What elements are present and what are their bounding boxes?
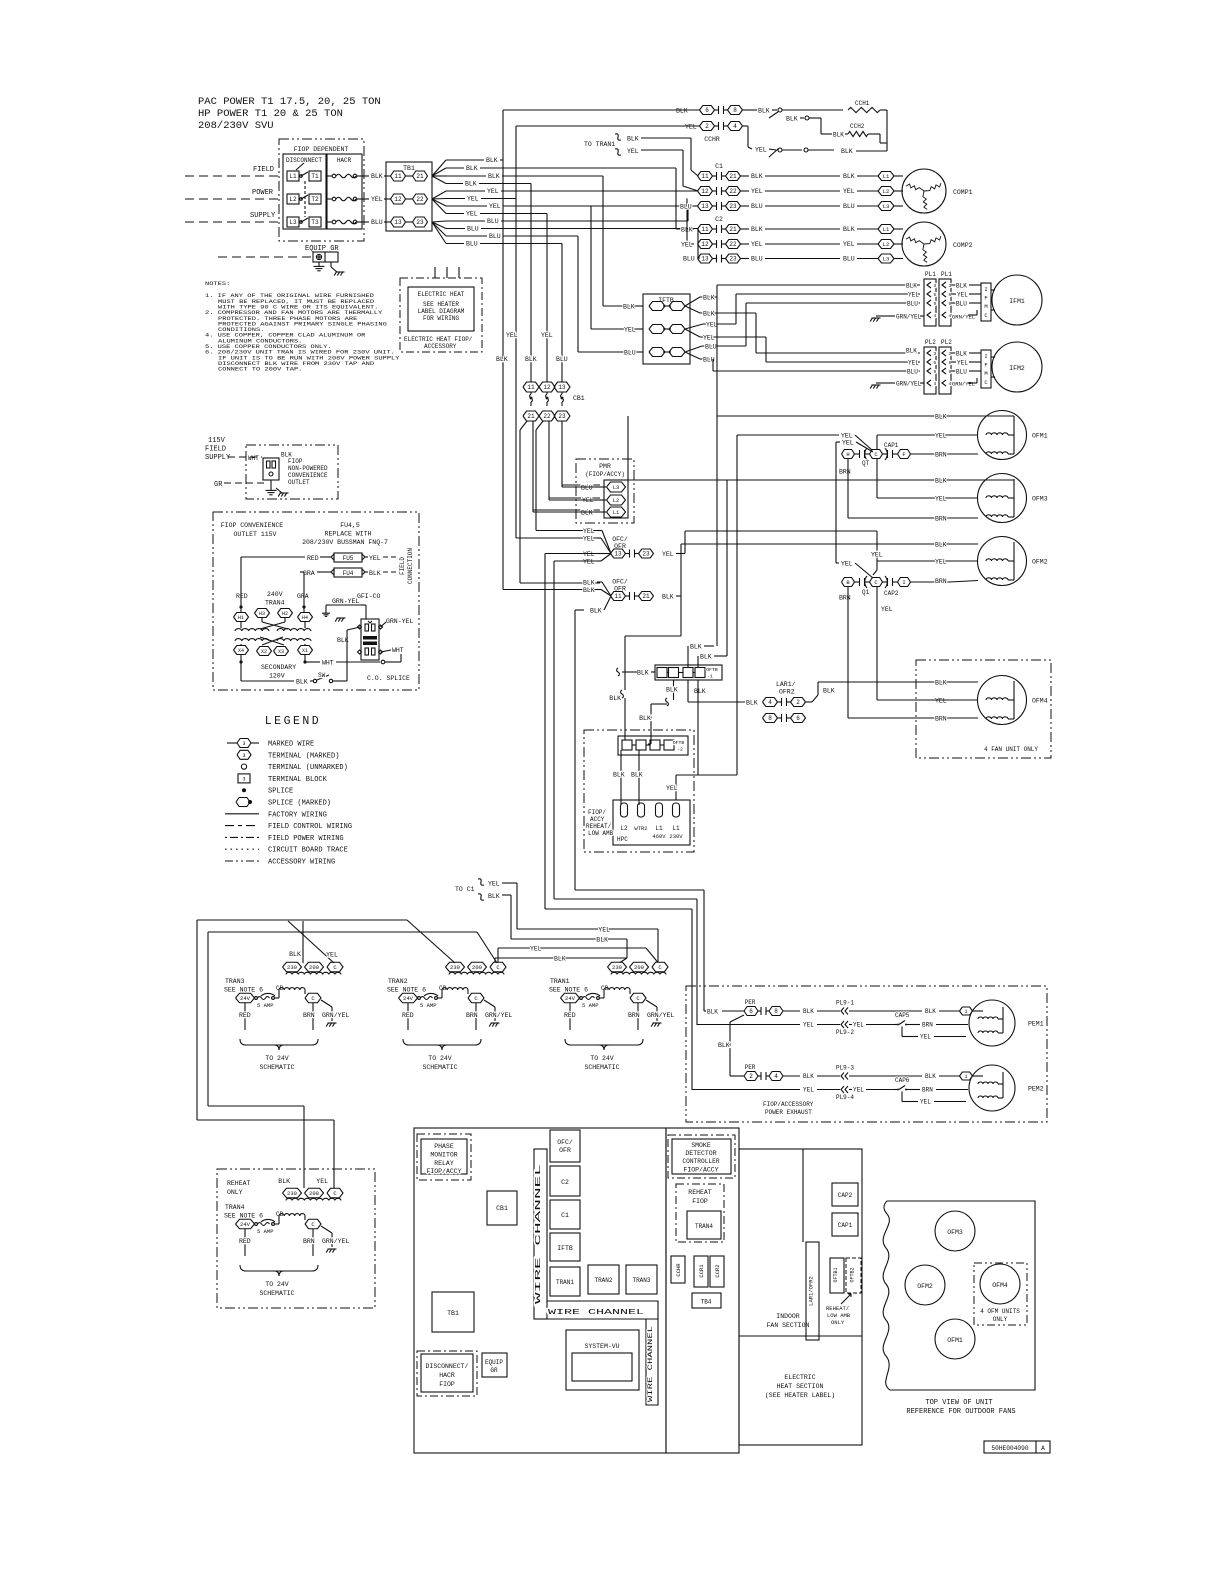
resistor CCH1: [848, 107, 880, 112]
svg-text:BLU: BLU: [467, 226, 479, 233]
power exhaust motor PEM1: [969, 1000, 1015, 1046]
svg-text:BLK: BLK: [676, 108, 688, 115]
outdoor fan motor OFM1: [978, 411, 1027, 460]
wire C down to OFM4 YEL: [876, 587, 878, 701]
svg-text:L2: L2: [883, 241, 890, 248]
svg-text:BLU: BLU: [705, 344, 717, 351]
wire feeds TRAN4: [208, 1105, 304, 1107]
svg-text:YEL: YEL: [935, 496, 947, 503]
svg-text:YEL: YEL: [841, 433, 853, 440]
svg-text:8: 8: [774, 1008, 778, 1015]
svg-text:FIOP DEPENDENT: FIOP DEPENDENT: [294, 146, 349, 153]
svg-text:LOW AMB: LOW AMB: [588, 830, 614, 837]
svg-text:L2: L2: [883, 188, 890, 195]
svg-text:ONLY: ONLY: [831, 1319, 845, 1326]
svg-text:REHEAT/: REHEAT/: [586, 823, 612, 830]
svg-text:GRN/YEL: GRN/YEL: [952, 381, 975, 388]
svg-text:PL1: PL1: [941, 271, 952, 278]
svg-text:INDOOR: INDOOR: [776, 1313, 800, 1320]
svg-text:L2: L2: [289, 196, 297, 203]
svg-text:CAP1: CAP1: [838, 1222, 853, 1229]
component TB4 box: [692, 1293, 721, 1308]
svg-text:BLU: BLU: [956, 301, 967, 308]
svg-text:3: 3: [934, 283, 937, 289]
field power supply lines: [185, 175, 283, 177]
wire PEM feed 2: [554, 898, 697, 900]
svg-text:L1: L1: [672, 825, 680, 832]
svg-text:HP POWER T1 20 & 25 TON: HP POWER T1 20 & 25 TON: [198, 108, 343, 120]
phase monitor relay box: [417, 1134, 471, 1180]
svg-text:WTR2: WTR2: [634, 825, 647, 832]
wire CCH1 branch: [743, 109, 758, 111]
transformer TRAN3: [283, 962, 302, 972]
svg-text:208/230V SVU: 208/230V SVU: [198, 120, 274, 132]
svg-text:SEE NOTE 6: SEE NOTE 6: [387, 987, 426, 994]
svg-text:H4: H4: [302, 615, 308, 621]
svg-text:FAN SECTION: FAN SECTION: [767, 1322, 810, 1329]
svg-text:CIRCUIT BOARD TRACE: CIRCUIT BOARD TRACE: [268, 847, 348, 855]
wire IFTB to PL1 PL2: [685, 297, 700, 306]
svg-text:3: 3: [949, 351, 952, 357]
svg-text:BLU: BLU: [751, 256, 763, 263]
svg-text:FACTORY WIRING: FACTORY WIRING: [268, 811, 327, 819]
wire channel right: [646, 1319, 658, 1405]
svg-text:YEL: YEL: [369, 555, 381, 562]
svg-text:115V: 115V: [208, 437, 226, 445]
svg-text:23: 23: [642, 551, 650, 558]
svg-text:22: 22: [416, 196, 424, 203]
svg-text:X3: X3: [278, 649, 284, 655]
svg-text:F: F: [984, 295, 987, 302]
svg-text:TOP VIEW OF UNIT: TOP VIEW OF UNIT: [925, 1399, 992, 1407]
svg-text:FU4,5: FU4,5: [340, 522, 360, 529]
svg-text:FIOP: FIOP: [692, 1198, 708, 1205]
svg-text:F: F: [984, 362, 987, 369]
svg-text:21: 21: [642, 593, 650, 600]
svg-text:YEL: YEL: [506, 332, 518, 339]
svg-text:BLK: BLK: [751, 226, 763, 233]
svg-text:BLK: BLK: [466, 165, 478, 172]
power exhaust accessory box: [686, 986, 1047, 1122]
svg-text:200: 200: [634, 964, 644, 971]
svg-text:OFTB1: OFTB1: [833, 1267, 839, 1282]
wire OFTB-1 sq2 down to OFTB-2: [673, 680, 675, 700]
svg-text:LEGEND: LEGEND: [265, 715, 321, 728]
wire YEL3 down to PEM: [544, 554, 546, 910]
svg-text:BLU: BLU: [843, 256, 855, 263]
svg-text:SYSTEM-VU: SYSTEM-VU: [584, 1343, 619, 1350]
compressor motor COMP1: [902, 169, 946, 213]
svg-text:12: 12: [394, 196, 402, 203]
svg-text:WHT: WHT: [248, 455, 259, 462]
wire vertical BLK x503: [502, 110, 504, 590]
svg-text:OFTB: OFTB: [706, 667, 718, 673]
component TRAN1 box: [550, 1267, 580, 1296]
svg-text:21: 21: [527, 413, 535, 420]
svg-text:CONTROLLER: CONTROLLER: [682, 1158, 719, 1165]
svg-text:PL9-2: PL9-2: [836, 1029, 854, 1036]
svg-text:I: I: [984, 286, 987, 293]
svg-text:BLK: BLK: [631, 772, 643, 779]
svg-text:PAC POWER T1 17.5, 20, 25 TON: PAC POWER T1 17.5, 20, 25 TON: [198, 96, 381, 108]
svg-text:POWER: POWER: [252, 189, 274, 197]
svg-text:X1: X1: [302, 648, 308, 654]
svg-text:COMP1: COMP1: [953, 189, 973, 196]
svg-text:BLU: BLU: [751, 203, 763, 210]
svg-text:YEL: YEL: [598, 927, 610, 934]
terminal IFMC block IFM1: [981, 283, 991, 321]
wire OFM1 BLK: [717, 415, 1014, 417]
wire B down to OFM4 BRN: [847, 587, 849, 719]
wire vertical BLK x531 to CB1: [530, 184, 532, 383]
svg-text:BLK: BLK: [554, 956, 566, 963]
svg-text:FIOP CONVENIENCE: FIOP CONVENIENCE: [221, 522, 284, 529]
svg-text:-1: -1: [707, 674, 713, 680]
wire fanout from TB1: [432, 160, 446, 176]
svg-text:BLK: BLK: [583, 580, 595, 587]
svg-text:9: 9: [934, 369, 937, 375]
svg-text:BRN: BRN: [303, 1238, 315, 1245]
svg-text:13: 13: [701, 256, 709, 263]
svg-text:YEL: YEL: [487, 188, 499, 195]
svg-text:SEE NOTE 6: SEE NOTE 6: [549, 987, 588, 994]
svg-text:WHT: WHT: [322, 660, 334, 667]
svg-text:1: 1: [964, 1074, 967, 1080]
svg-text:L2: L2: [613, 497, 620, 504]
control box outline: [414, 1128, 666, 1453]
svg-text:PL2: PL2: [941, 339, 952, 346]
resistor CCH2: [848, 131, 868, 136]
svg-text:YEL: YEL: [583, 528, 595, 535]
svg-text:REPLACE WITH: REPLACE WITH: [325, 531, 372, 538]
component LAR1/OFR2 box: [802, 1149, 804, 1242]
svg-text:L3: L3: [883, 203, 890, 210]
terminal block OFTB-1: [655, 665, 722, 680]
indoor fan motor IFM1: [992, 275, 1042, 325]
svg-text:BLU: BLU: [466, 241, 478, 248]
svg-text:BLK: BLK: [690, 644, 702, 651]
svg-text:CONNECTION: CONNECTION: [407, 548, 414, 584]
svg-text:BLK: BLK: [694, 688, 706, 695]
component OFTB2 box: [846, 1258, 861, 1293]
svg-text:BLK: BLK: [906, 348, 917, 355]
svg-text:ELECTRIC: ELECTRIC: [784, 1374, 815, 1381]
svg-text:YEL: YEL: [316, 1178, 328, 1185]
svg-text:TRAN4: TRAN4: [695, 1223, 713, 1230]
svg-text:21: 21: [729, 173, 737, 180]
wire bus BLK to transformers: [197, 919, 407, 921]
svg-text:YEL: YEL: [920, 1099, 931, 1106]
svg-text:TRAN4: TRAN4: [265, 600, 285, 607]
svg-text:CB1: CB1: [573, 395, 585, 402]
svg-text:PL1: PL1: [925, 271, 936, 278]
svg-text:GR: GR: [490, 1367, 498, 1374]
wire to C2 contactor: [675, 168, 677, 229]
wire TO C1 BLK to TRAN1 230: [511, 938, 627, 940]
svg-text:H2: H2: [282, 611, 288, 617]
svg-text:BLK: BLK: [703, 311, 715, 318]
svg-text:4: 4: [934, 313, 937, 319]
svg-text:TO 24V: TO 24V: [265, 1055, 289, 1062]
svg-text:BLU: BLU: [680, 204, 692, 211]
svg-text:BLK: BLK: [465, 181, 477, 188]
svg-text:GRN/YEL: GRN/YEL: [485, 1012, 512, 1019]
svg-text:LOW AMB: LOW AMB: [827, 1312, 851, 1319]
svg-text:BLU: BLU: [907, 369, 918, 376]
svg-text:BRN: BRN: [839, 595, 851, 602]
component OFC/OFR box: [550, 1130, 580, 1162]
svg-text:YEL: YEL: [489, 203, 501, 210]
svg-text:YEL: YEL: [666, 785, 678, 792]
svg-text:BLK: BLK: [296, 679, 308, 686]
relay CCHR contacts: [700, 106, 715, 115]
svg-text:230: 230: [287, 1190, 297, 1197]
wire OFC BLK chain down to OFTB-2: [624, 672, 626, 690]
svg-text:CAP5: CAP5: [895, 1012, 910, 1019]
svg-text:CONNECT TO 200V TAP.: CONNECT TO 200V TAP.: [218, 366, 302, 373]
svg-text:YEL: YEL: [530, 946, 542, 953]
svg-text:BLK: BLK: [803, 1008, 814, 1015]
wire OFR2 to OFM4 BLK: [806, 701, 813, 703]
svg-text:BLU: BLU: [843, 203, 855, 210]
svg-text:BLK: BLK: [935, 542, 947, 549]
svg-text:BLU: BLU: [371, 219, 383, 226]
indoor fan section outline: [739, 1149, 862, 1445]
svg-text:200: 200: [309, 964, 319, 971]
svg-text:240V: 240V: [267, 591, 283, 598]
svg-text:200: 200: [309, 1190, 319, 1197]
svg-text:BLK: BLK: [289, 951, 301, 958]
svg-text:BRN: BRN: [935, 578, 947, 585]
svg-text:BLK: BLK: [700, 654, 712, 661]
component TRAN2 box: [588, 1265, 619, 1294]
component CCHR box: [671, 1256, 685, 1283]
svg-text:RED: RED: [239, 1012, 251, 1019]
wire WHT to splice: [305, 661, 320, 663]
svg-text:OFM3: OFM3: [1032, 496, 1048, 503]
ground IFM1: [872, 317, 881, 319]
svg-text:YEL: YEL: [466, 211, 478, 218]
svg-text:TO 24V: TO 24V: [428, 1055, 452, 1062]
wire BLK3 down to PEM: [574, 610, 576, 890]
wire H to OFM3 BRN: [847, 459, 849, 519]
svg-text:SCHEMATIC: SCHEMATIC: [422, 1064, 457, 1071]
svg-text:BLK: BLK: [843, 173, 855, 180]
svg-text:SMOKE: SMOKE: [691, 1142, 711, 1149]
svg-text:OFC/: OFC/: [612, 536, 628, 543]
svg-text:BLK: BLK: [935, 478, 947, 485]
svg-text:YEL: YEL: [935, 559, 947, 566]
svg-text:BLK: BLK: [746, 700, 758, 707]
svg-text:FIELD: FIELD: [205, 446, 226, 454]
svg-text:BLK: BLK: [935, 414, 947, 421]
svg-text:BLK: BLK: [718, 1042, 730, 1049]
svg-text:TRAN2: TRAN2: [388, 978, 408, 985]
wire CAP1 to OFM1 BRN: [911, 453, 979, 455]
wire IFM1 BLK feed: [717, 284, 920, 286]
component C2 box: [550, 1166, 580, 1196]
svg-text:LAR1/: LAR1/: [776, 681, 796, 688]
svg-text:L1: L1: [883, 226, 890, 233]
svg-text:WIRE CHANNEL: WIRE CHANNEL: [548, 1309, 644, 1317]
wire TRAN3 YEL diagonal: [288, 921, 334, 963]
circuit breaker CB1: [523, 382, 539, 392]
svg-text:C.O. SPLICE: C.O. SPLICE: [367, 675, 410, 682]
svg-text:T1: T1: [311, 173, 319, 180]
svg-text:23: 23: [416, 219, 424, 226]
svg-text:SW: SW: [318, 672, 326, 679]
svg-text:WIRE CHANNEL: WIRE CHANNEL: [647, 1326, 654, 1402]
svg-text:6: 6: [705, 107, 709, 114]
power exhaust motor PEM2: [969, 1065, 1015, 1111]
svg-text:PL9-3: PL9-3: [836, 1065, 854, 1072]
svg-text:OFM3: OFM3: [947, 1229, 963, 1236]
wire CB1-21 outputs: [520, 421, 527, 430]
svg-text:CB1: CB1: [496, 1205, 508, 1212]
wire TO C1 YEL to TRAN1 C: [517, 928, 658, 930]
FIOP convenience outlet box: [213, 512, 419, 690]
svg-text:RED: RED: [236, 593, 248, 600]
svg-text:L1: L1: [655, 825, 663, 832]
svg-text:OFTB2: OFTB2: [850, 1267, 856, 1282]
wire CB1-22 outputs: [536, 421, 543, 430]
wire PEM feed 3: [545, 908, 692, 910]
svg-text:1: 1: [964, 1009, 967, 1015]
svg-text:BLK: BLK: [956, 351, 967, 358]
svg-text:BLU: BLU: [624, 350, 636, 357]
svg-text:BLK: BLK: [956, 283, 967, 290]
svg-text:TO 24V: TO 24V: [265, 1281, 289, 1288]
svg-text:PHASE: PHASE: [434, 1143, 454, 1150]
terminal block OFTB-2: [618, 736, 688, 755]
svg-text:SPLICE: SPLICE: [268, 788, 293, 796]
svg-text:YEL: YEL: [583, 559, 595, 566]
svg-text:11: 11: [527, 384, 535, 391]
component TRAN4 box: [687, 1211, 721, 1239]
svg-text:DISCONNECT/: DISCONNECT/: [426, 1363, 469, 1370]
svg-text:TO 24V: TO 24V: [590, 1055, 614, 1062]
svg-text:CAP1: CAP1: [884, 442, 899, 449]
svg-text:12: 12: [543, 384, 551, 391]
svg-text:GRN/YEL: GRN/YEL: [322, 1012, 349, 1019]
svg-text:HACR: HACR: [439, 1372, 455, 1379]
component CCR2 box: [710, 1256, 724, 1287]
svg-text:TRAN3: TRAN3: [632, 1277, 650, 1284]
svg-text:YEL: YEL: [957, 360, 968, 367]
svg-text:YEL: YEL: [703, 335, 715, 342]
svg-text:TERMINAL (MARKED): TERMINAL (MARKED): [268, 752, 339, 760]
transformer secondary 120V: [235, 639, 269, 641]
svg-text:CCR1: CCR1: [698, 1264, 705, 1278]
svg-text:6: 6: [934, 292, 937, 298]
svg-text:CCHR: CCHR: [704, 136, 720, 143]
non-powered convenience outlet box: [246, 445, 338, 499]
svg-text:FIELD: FIELD: [253, 166, 274, 174]
terminal IFMC block IFM2: [981, 350, 991, 388]
svg-text:13: 13: [614, 551, 622, 558]
svg-text:L1: L1: [883, 173, 890, 180]
svg-text:PL2: PL2: [925, 339, 936, 346]
wire C to OFM3 YEL: [876, 459, 878, 499]
svg-text:TO TRAN1: TO TRAN1: [584, 141, 615, 148]
svg-text:GRN-YEL: GRN-YEL: [386, 618, 413, 625]
svg-text:FU4: FU4: [343, 570, 354, 577]
svg-text:GRN-YEL: GRN-YEL: [332, 598, 359, 605]
reheat FIOP box: [676, 1184, 724, 1242]
svg-text:2: 2: [749, 1073, 753, 1080]
svg-text:BLK: BLK: [369, 570, 381, 577]
plug low ambient HPC: [613, 800, 690, 845]
svg-text:6: 6: [949, 292, 952, 298]
svg-text:COMP2: COMP2: [953, 242, 973, 249]
fan OFM1 top view: [935, 1319, 975, 1359]
svg-text:6: 6: [749, 1008, 753, 1015]
svg-text:BLU: BLU: [683, 256, 695, 263]
svg-text:TB1: TB1: [403, 165, 415, 172]
svg-text:PEM2: PEM2: [1028, 1086, 1044, 1093]
svg-text:BLK: BLK: [841, 148, 853, 155]
wire PL2 to IFM2: [951, 352, 956, 354]
component TB1 box: [432, 1292, 474, 1332]
electric heat FIOP/accessory box: [400, 278, 482, 352]
svg-text:BRN: BRN: [466, 1012, 478, 1019]
svg-text:BLK: BLK: [843, 226, 855, 233]
svg-text:Q1: Q1: [862, 589, 870, 596]
svg-text:GR: GR: [214, 481, 223, 489]
svg-text:YEL: YEL: [706, 322, 718, 329]
component OFTB1 box: [830, 1258, 844, 1293]
svg-text:YEL: YEL: [583, 551, 595, 558]
wire vertical BLU x562 to CB1: [561, 244, 563, 383]
fan OFM3 top view: [935, 1211, 975, 1251]
outdoor fan motor OFM3: [978, 474, 1027, 523]
svg-text:OFC/: OFC/: [612, 579, 628, 586]
wire GRN-YEL left: [330, 604, 361, 606]
svg-text:50HE004090: 50HE004090: [991, 1445, 1028, 1452]
svg-text:EQUIP: EQUIP: [485, 1359, 503, 1366]
svg-text:BLK: BLK: [488, 893, 500, 900]
svg-text:ONLY: ONLY: [227, 1189, 243, 1196]
svg-text:TRAN3: TRAN3: [225, 978, 245, 985]
svg-text:BLK: BLK: [925, 1008, 936, 1015]
svg-text:FIOP: FIOP: [439, 1381, 455, 1388]
svg-text:SCHEMATIC: SCHEMATIC: [259, 1064, 294, 1071]
svg-text:YEL: YEL: [935, 698, 947, 705]
svg-text:YEL: YEL: [326, 952, 338, 959]
wire BLK with switch SW: [240, 662, 242, 681]
svg-text:WHT: WHT: [392, 647, 404, 654]
top view of unit outline: [883, 1201, 1035, 1390]
svg-text:SEE HEATER: SEE HEATER: [423, 301, 459, 308]
svg-text:YEL: YEL: [627, 148, 639, 155]
svg-text:QT: QT: [862, 460, 870, 467]
svg-text:22: 22: [729, 188, 737, 195]
svg-text:BLK: BLK: [609, 695, 621, 702]
svg-text:BLK: BLK: [525, 356, 537, 363]
wire vertical YEL x591 to IFTB: [590, 206, 592, 329]
svg-text:5 AMP: 5 AMP: [420, 1002, 437, 1009]
svg-text:TRAN2: TRAN2: [594, 1277, 612, 1284]
svg-text:5 AMP: 5 AMP: [257, 1228, 274, 1235]
transformer TRAN4: [283, 1188, 302, 1198]
wire channel horizontal: [547, 1301, 658, 1319]
svg-text:BLK: BLK: [833, 132, 844, 139]
svg-text:REHEAT: REHEAT: [688, 1189, 712, 1196]
wire PEM feed 1: [575, 889, 704, 891]
svg-text:23: 23: [729, 256, 737, 263]
svg-text:X4: X4: [238, 648, 244, 654]
svg-text:YEL: YEL: [920, 1034, 931, 1041]
